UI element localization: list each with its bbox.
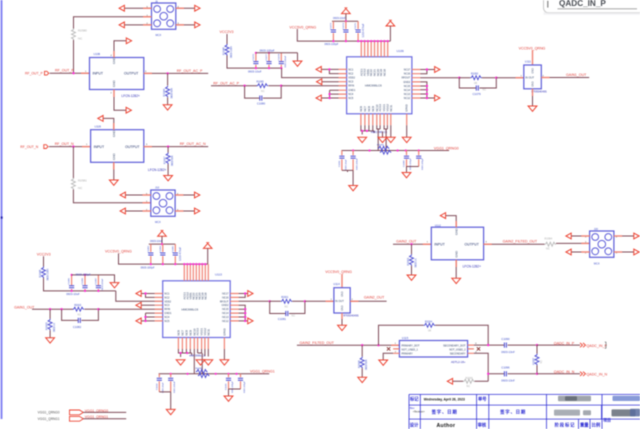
row3 sub column lines — [579, 405, 602, 429]
svg-text:GAIN2_OUT: GAIN2_OUT — [364, 295, 385, 299]
svg-text:Rev: Rev — [410, 406, 415, 410]
IC U113 body — [163, 281, 231, 338]
wire J9 pin5 — [124, 7, 151, 9]
svg-text:VGG2: VGG2 — [203, 328, 207, 336]
power arrow capbank U113 — [158, 230, 167, 236]
junction left R2002 — [60, 308, 62, 310]
svg-text:U10B: U10B — [94, 52, 101, 56]
arrow NC17 (U113) — [248, 291, 253, 297]
svg-text:NOT_USED_2: NOT_USED_2 — [449, 348, 466, 351]
svg-text:阶段标记: 阶段标记 — [555, 421, 576, 428]
gnd bottom pins 2 (U113) — [196, 360, 205, 365]
ground right caps — [402, 173, 411, 178]
svg-text:C1081: C1081 — [278, 317, 287, 321]
svg-text:GND2: GND2 — [222, 304, 230, 307]
wire R2002 right — [84, 308, 98, 310]
svg-text:GND: GND — [112, 80, 116, 88]
NC17/NC16 tie to arrow — [420, 70, 434, 74]
svg-text:RF_OUT_AC_P: RF_OUT_AC_P — [177, 69, 203, 73]
wire U11B output — [144, 146, 208, 148]
svg-text:NC1: NC1 — [164, 293, 170, 296]
svg-text:C1086: C1086 — [82, 277, 84, 284]
resistor R2009 (NC) to arrow — [463, 379, 475, 383]
GND2 chain (U113) — [239, 305, 248, 321]
svg-text:比例: 比例 — [592, 421, 601, 428]
svg-text:ADTL2-18+: ADTL2-18+ — [451, 360, 466, 364]
cap C1082 — [78, 318, 80, 323]
left caps tie wire — [342, 170, 353, 185]
connector J9 — [152, 3, 176, 29]
wire VCC2V3 down — [226, 34, 228, 44]
svg-text:GND: GND — [112, 57, 116, 65]
svg-text:R1994: R1994 — [545, 237, 553, 241]
svg-text:C1073: C1073 — [330, 22, 332, 29]
resistor R2204 — [424, 323, 436, 327]
EPAD gnd wire (U113) — [223, 349, 225, 360]
RFOUT wire (U113) — [239, 300, 270, 302]
svg-text:C1085: C1085 — [172, 245, 174, 252]
NC3 wire to arrow (U113) — [141, 304, 154, 306]
gnd bottom pins 1 (U113) — [176, 360, 185, 365]
svg-text:HMC666LC6: HMC666LC6 — [189, 353, 206, 357]
svg-text:R2003: R2003 — [406, 257, 410, 265]
resistor R1048 — [42, 267, 46, 279]
svg-text:0603-100R: 0603-100R — [47, 268, 50, 280]
wire R1048 to bus — [44, 278, 116, 291]
stem power to capbank — [345, 14, 347, 22]
wire down to R1044 — [167, 73, 169, 85]
gnd stem — [297, 53, 299, 61]
port QADC_IN_N — [580, 372, 586, 376]
NC1/NC2 tie to arrow — [321, 69, 338, 73]
cap C1087 — [97, 275, 99, 291]
svg-text:GND: GND — [341, 291, 344, 297]
ground U112 — [452, 278, 461, 283]
arrow right J10 pin4 — [195, 192, 200, 198]
wire through R1093 — [459, 77, 496, 79]
wire U114 output GAIN2_OUT — [350, 300, 386, 302]
power arrow right — [386, 20, 395, 26]
svg-text:0603-1K: 0603-1K — [415, 258, 418, 267]
NC3 wire to arrow — [322, 81, 339, 83]
censored block row2 dark — [612, 409, 636, 416]
arrow right J20 pin4 — [634, 233, 639, 239]
U115 right pin stubs — [468, 345, 474, 353]
junction R1007 — [167, 145, 169, 147]
svg-text:R2005: R2005 — [45, 322, 49, 330]
svg-text:设计: 设计 — [410, 422, 419, 429]
R2001 parallel network — [269, 300, 271, 302]
resistor R1994 (NC) — [545, 242, 557, 246]
gnd under bottom pins 1 — [358, 137, 367, 142]
svg-text:NC3: NC3 — [164, 304, 170, 307]
svg-text:0R: 0R — [428, 329, 431, 332]
wire R2581 to J10 pin1 — [73, 190, 150, 203]
censored block row1 blue — [613, 396, 640, 401]
svg-text:IN OUT: IN OUT — [525, 76, 534, 80]
svg-text:LFCN-1282+: LFCN-1282+ — [122, 94, 140, 98]
svg-text:R2581: R2581 — [78, 179, 87, 183]
svg-text:R2006: R2006 — [357, 360, 361, 368]
svg-text:C1104: C1104 — [156, 383, 158, 390]
svg-text:QADC_IN_P: QADC_IN_P — [554, 341, 575, 345]
svg-text:C1074: C1074 — [343, 22, 345, 29]
svg-text:<Revision>: <Revision> — [413, 410, 426, 413]
cap C1096 — [504, 373, 537, 375]
resistor R2581 (NC) — [71, 178, 75, 190]
arrow left J10 pin2 — [120, 208, 125, 214]
svg-text:VCC2V3: VCC2V3 — [37, 252, 51, 256]
svg-text:VGG2: VGG2 — [385, 104, 389, 112]
svg-text:IN OUT: IN OUT — [335, 299, 344, 303]
svg-text:0603-100nF: 0603-100nF — [102, 278, 104, 290]
svg-text:NC: NC — [285, 306, 289, 309]
EPAD stub — [406, 114, 408, 126]
wire VGG1_QRNG0 — [83, 411, 126, 413]
cap C1074 — [345, 21, 347, 41]
svg-text:0603-1K: 0603-1K — [53, 323, 56, 332]
svg-text:GND: GND — [532, 81, 535, 87]
U111 gnd stem — [532, 89, 534, 106]
cap C1089 — [418, 151, 420, 167]
U11B top gnd wire to arrow — [103, 118, 114, 129]
svg-text:GND: GND — [454, 250, 458, 258]
cap C1080 — [260, 96, 262, 101]
gnd EPAD — [402, 137, 411, 142]
svg-text:J20: J20 — [594, 227, 599, 231]
svg-text:RF_OUT_AC_N: RF_OUT_AC_N — [180, 142, 206, 146]
wire to transformer primary — [297, 344, 400, 346]
svg-text:GND: GND — [341, 305, 344, 311]
svg-text:PRIMARY: PRIMARY — [402, 352, 414, 355]
svg-text:RF_OUT_P: RF_OUT_P — [55, 69, 74, 73]
svg-text:RFIN: RFIN — [164, 308, 170, 311]
cap C1092 — [352, 151, 354, 171]
VGG1_QRNG1 rail — [159, 373, 270, 375]
wire R2005 to gnd — [49, 330, 51, 338]
U109 left pin stubs — [339, 69, 347, 98]
svg-text:NC14: NC14 — [222, 312, 229, 315]
svg-text:GAIN2_FILTED_OUT: GAIN2_FILTED_OUT — [300, 341, 335, 345]
resistor R2005 — [48, 319, 52, 331]
svg-text:0R: 0R — [474, 82, 477, 85]
arrow NC1 (U113) — [136, 291, 141, 297]
arrow right of J9 pin3 — [195, 22, 200, 28]
ground R2005 — [46, 338, 55, 343]
wire R2006 to gnd — [361, 368, 363, 377]
wire port to U11B — [49, 146, 91, 148]
resistor R2003 — [410, 254, 414, 266]
wire to U111 — [496, 77, 524, 79]
svg-text:NC: NC — [292, 315, 296, 318]
junction right R2002 — [97, 308, 99, 310]
EPAD stub (U113) — [223, 338, 225, 350]
svg-text:0603-100pF: 0603-100pF — [232, 381, 234, 393]
filter U10B — [90, 58, 144, 90]
sheet left border — [1, 0, 3, 419]
VDD2 feed wire (2) — [116, 291, 163, 301]
resistor R1095 — [257, 84, 269, 88]
svg-text:OUTPUT: OUTPUT — [125, 145, 140, 149]
junction right R1095 — [280, 85, 282, 87]
svg-text:PRIMARY_DOT: PRIMARY_DOT — [402, 344, 420, 347]
ground cap bank (2) — [110, 283, 119, 288]
arrow left R2009 — [447, 378, 452, 384]
svg-text:0603-50R: 0603-50R — [365, 359, 368, 370]
arrow gnd bottom U10B — [126, 107, 131, 113]
svg-text:NC17: NC17 — [222, 293, 229, 296]
svg-text:NC13: NC13 — [404, 93, 411, 96]
wire R1994 to J20 — [556, 242, 590, 244]
U112 top gnd wire to arrow — [446, 216, 457, 228]
svg-text:NC2: NC2 — [164, 296, 170, 299]
svg-text:NC14: NC14 — [404, 89, 411, 92]
svg-text:R1046: R1046 — [222, 47, 226, 55]
svg-text:RFIN: RFIN — [348, 85, 354, 88]
svg-text:R1048: R1048 — [38, 269, 42, 277]
svg-text:NC11: NC11 — [389, 104, 393, 111]
svg-text:RF_OUT_N: RF_OUT_N — [55, 142, 74, 146]
svg-text:RF_OUT_P: RF_OUT_P — [25, 72, 43, 76]
arrow left J10 pin5 — [120, 192, 125, 198]
gnd EPAD (U113) — [220, 360, 229, 365]
svg-text:U113: U113 — [215, 273, 222, 277]
wire U112 output — [484, 243, 545, 245]
svg-text:NC1: NC1 — [348, 68, 354, 71]
svg-text:C1088: C1088 — [404, 160, 406, 167]
cap C1086 — [84, 275, 86, 291]
filter U112 — [431, 227, 483, 260]
wire VCC to U114 — [341, 274, 343, 288]
cap C1079 — [476, 85, 478, 90]
svg-text:NC5: NC5 — [348, 97, 354, 100]
wire J10 pin4 — [175, 194, 194, 196]
svg-text:0603-100pF: 0603-100pF — [141, 265, 155, 269]
svg-text:NC8: NC8 — [184, 330, 188, 336]
svg-text:C1091: C1091 — [339, 160, 341, 167]
arrow left of J9 pin2 — [119, 22, 124, 28]
wire J20 pin5 — [571, 235, 589, 237]
stem power right (2) — [207, 248, 209, 264]
wire R1044 to gnd — [167, 97, 169, 105]
svg-text:0603-50R: 0603-50R — [171, 88, 174, 99]
wire U10B output — [144, 72, 208, 74]
U109 right pin stubs — [412, 70, 420, 99]
svg-text:NC: NC — [467, 385, 471, 388]
svg-text:C1076: C1076 — [253, 53, 255, 60]
svg-text:VCC5V0_QRNG: VCC5V0_QRNG — [325, 270, 352, 274]
wire VGG1_QRNG1 — [83, 418, 126, 420]
svg-text:NC17: NC17 — [404, 69, 411, 72]
svg-text:QADC_IN_P: QADC_IN_P — [587, 344, 608, 348]
svg-text:HMC666LC6: HMC666LC6 — [365, 84, 382, 88]
svg-text:VCC2V3: VCC2V3 — [220, 30, 234, 34]
svg-text:HMC666LC6: HMC666LC6 — [182, 307, 199, 311]
svg-text:NC3: NC3 — [348, 81, 354, 84]
svg-text:MCX: MCX — [155, 220, 161, 224]
arrow NC12 — [435, 95, 440, 101]
svg-text:U109: U109 — [397, 49, 405, 53]
arrow gnd top U10B — [126, 38, 131, 44]
ground left caps — [349, 186, 358, 191]
junction R1044 — [166, 72, 168, 74]
svg-text:NC7: NC7 — [363, 106, 367, 112]
svg-text:QADC_IN_N: QADC_IN_N — [587, 373, 608, 377]
wire down to R2005 — [49, 309, 51, 319]
svg-text:0603-10uF: 0603-10uF — [345, 159, 347, 170]
cap C1085 — [71, 275, 73, 291]
wire J9 pin4 — [176, 7, 195, 9]
svg-text:C1085: C1085 — [69, 277, 71, 284]
cap C1084c — [174, 244, 176, 264]
svg-text:VCC5V0_QRNG: VCC5V0_QRNG — [519, 46, 546, 50]
RFOUT wire — [420, 77, 459, 79]
svg-text:NC6: NC6 — [359, 106, 363, 112]
U113 bottom pin stubs — [178, 338, 208, 350]
U109 bottom pin stubs — [361, 114, 391, 126]
cap C1083b — [162, 244, 164, 264]
wire R2009 — [453, 380, 489, 382]
svg-text:GND1: GND1 — [164, 312, 172, 315]
svg-text:C1087: C1087 — [95, 277, 97, 284]
svg-text:NC12: NC12 — [222, 320, 229, 323]
svg-text:ACG3: ACG3 — [378, 104, 382, 112]
wire J9 pin1 to R2580 — [74, 17, 152, 29]
U11B bottom gnd stem — [113, 162, 115, 180]
cap C1081 — [286, 311, 288, 316]
arrow right of J9 pin4 — [195, 5, 200, 11]
svg-text:RT0534049S: RT0534049S — [343, 314, 359, 318]
ground R1007 — [164, 176, 173, 181]
cap C1076 — [255, 65, 257, 69]
wire J20 pin4 — [614, 235, 634, 237]
wire RFIN to U109 — [281, 85, 346, 87]
gnd under bottom pins 2 — [378, 137, 387, 142]
rail dots — [170, 373, 172, 375]
svg-text:单号: 单号 — [478, 396, 487, 403]
cap C1073 — [332, 21, 334, 41]
svg-text:U111: U111 — [525, 60, 532, 64]
svg-text:VGG1_QRNG0: VGG1_QRNG0 — [434, 147, 459, 151]
gnd bottom pins 3 (U113) — [204, 360, 213, 365]
ground U111 — [528, 106, 537, 111]
censored block row2 gray — [554, 410, 580, 416]
arrow NC3 (U113) — [136, 302, 141, 308]
ground R2006 — [358, 377, 367, 382]
svg-text:SECONDARY: SECONDARY — [450, 352, 466, 355]
U10B top gnd wire to arrow — [114, 41, 126, 58]
bottom tie bus (U113) — [178, 349, 191, 357]
parallel cap path C1081 — [270, 301, 305, 313]
ground PRIMARY — [379, 360, 388, 365]
arrow left J20 pin5 — [566, 233, 571, 239]
svg-text:QADC_IN_N: QADC_IN_N — [554, 370, 575, 374]
svg-text:0603-10nF: 0603-10nF — [150, 239, 163, 243]
svg-text:GND: GND — [532, 68, 535, 74]
svg-text:重量: 重量 — [580, 421, 589, 428]
arrow NC17 — [435, 67, 440, 73]
svg-text:GND: GND — [454, 228, 458, 236]
svg-text:VGG1_QRNG0: VGG1_QRNG0 — [38, 411, 60, 415]
wire down to R2581 — [72, 147, 74, 178]
junction R2007 top — [536, 344, 538, 346]
junction R2005 — [49, 308, 51, 310]
svg-text:RF_OUT_N: RF_OUT_N — [20, 145, 38, 149]
svg-text:NC12: NC12 — [404, 97, 411, 100]
svg-text:C1077: C1077 — [266, 53, 268, 60]
svg-text:C1106: C1106 — [226, 383, 228, 390]
wire SECONDARY_DOT right — [474, 344, 504, 346]
svg-text:INPUT: INPUT — [94, 145, 105, 149]
svg-text:C1075: C1075 — [355, 22, 357, 29]
x mark NOT_USED_2 — [477, 347, 480, 350]
U113 top pin stubs — [184, 264, 208, 281]
censored block row1 gray — [558, 396, 591, 401]
bottom tie bus — [361, 125, 374, 134]
cap C1106 — [228, 374, 230, 389]
power arrow top of cap bank — [342, 8, 351, 14]
filter U11B — [91, 130, 144, 163]
svg-text:GAIN2_FILTED_OUT: GAIN2_FILTED_OUT — [503, 240, 538, 244]
wire down to R2006 — [361, 345, 363, 356]
wire R1095 right — [268, 85, 281, 87]
wire J20 pin2 — [571, 251, 589, 253]
svg-text:VGG1_QRNG1: VGG1_QRNG1 — [38, 417, 60, 421]
svg-text:R1093: R1093 — [471, 72, 479, 75]
U114 gnd stem — [341, 313, 343, 325]
svg-text:C1078: C1078 — [278, 53, 280, 60]
cap C1075 — [357, 21, 359, 41]
svg-text:HMC666LC6: HMC666LC6 — [371, 130, 388, 134]
svg-text:U11B: U11B — [95, 124, 102, 128]
svg-text:C1090: C1090 — [501, 337, 510, 341]
svg-text:R2580: R2580 — [78, 29, 87, 33]
junction R2003 — [410, 243, 412, 245]
wire R2003 to gnd — [411, 266, 413, 275]
parallel cap path C1080 — [245, 86, 282, 98]
svg-text:MCX: MCX — [156, 33, 162, 37]
stem power right — [389, 26, 391, 41]
ground right caps (U113) — [224, 396, 233, 401]
wire GAIN2_OUT to U112 — [393, 243, 431, 245]
svg-text:INPUT: INPUT — [434, 243, 445, 247]
arrow gnd top U112 — [440, 213, 445, 219]
VDD2 feed wire — [282, 68, 347, 78]
svg-text:VGG1_QRNG1: VGG1_QRNG1 — [250, 369, 275, 373]
EPAD gnd wire — [406, 125, 408, 137]
svg-text:项目: 项目 — [603, 417, 611, 422]
capbank top bus (2) — [149, 243, 176, 245]
NC17/NC16 tie to arrow (U113) — [239, 294, 248, 298]
svg-text:0603-100pF: 0603-100pF — [410, 158, 412, 170]
cap C1104 — [158, 374, 160, 392]
svg-text:GAIN1_OUT: GAIN1_OUT — [566, 73, 587, 77]
right caps tie (U113) — [229, 389, 241, 396]
svg-text:R1007: R1007 — [163, 156, 167, 164]
svg-text:0603-10uF: 0603-10uF — [163, 382, 165, 393]
svg-text:J10: J10 — [155, 185, 160, 189]
arrow left J20 pin2 — [566, 249, 571, 255]
resistor R1007 — [166, 153, 170, 165]
wire RFIN to U113 — [98, 308, 162, 310]
border tick — [1, 217, 3, 219]
svg-text:VCC5V0_QRNG: VCC5V0_QRNG — [289, 25, 316, 29]
svg-text:0603-100pF: 0603-100pF — [76, 273, 91, 277]
GND2 chain — [420, 82, 434, 98]
IC U109 body — [347, 57, 412, 114]
title block outer lines — [409, 394, 640, 429]
column lines — [420, 394, 602, 429]
